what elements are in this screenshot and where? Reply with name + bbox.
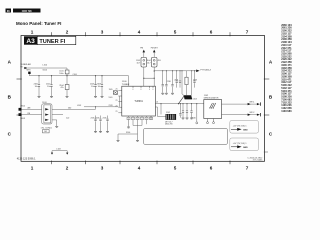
svg-text:2130: 2130	[167, 81, 171, 83]
svg-text:Mono Panel: Tuner FI: Mono Panel: Tuner FI	[16, 21, 61, 26]
svg-text:8: 8	[149, 89, 150, 91]
svg-text:GND: GND	[243, 147, 248, 149]
svg-text:21: 21	[156, 102, 158, 104]
svg-text:8: 8	[133, 89, 134, 91]
svg-text:47u: 47u	[60, 87, 63, 89]
svg-text:4822 290: 4822 290	[165, 124, 173, 126]
svg-text:10n: 10n	[98, 86, 101, 88]
svg-text:455: 455	[158, 60, 161, 62]
svg-text:FM DET: FM DET	[151, 48, 159, 50]
svg-text:100u: 100u	[59, 73, 63, 75]
svg-text:DEMODULATOR: DEMODULATOR	[204, 97, 219, 100]
svg-text:A3: A3	[26, 38, 35, 45]
svg-text:5102: 5102	[166, 112, 170, 114]
svg-text:+5V (TV, DK) 1: +5V (TV, DK) 1	[233, 125, 248, 127]
svg-text:TUNER FI: TUNER FI	[39, 39, 65, 45]
svg-text:TUNER: TUNER	[122, 84, 130, 86]
svg-text:21: 21	[116, 100, 118, 102]
svg-text:5103: 5103	[193, 98, 197, 100]
svg-text:GND: GND	[243, 129, 248, 131]
svg-text:3: 3	[101, 30, 104, 35]
svg-text:8: 8	[141, 89, 142, 91]
svg-text:560: 560	[68, 108, 71, 110]
svg-text:21: 21	[116, 89, 118, 91]
svg-text:10n: 10n	[47, 86, 50, 88]
svg-text:21: 21	[116, 105, 118, 107]
svg-text:2133: 2133	[193, 80, 197, 82]
svg-text:10.7: 10.7	[137, 62, 141, 64]
svg-text:C106: C106	[73, 74, 77, 76]
svg-text:7: 7	[246, 30, 249, 35]
svg-text:2: 2	[66, 166, 69, 171]
svg-text:1 KL CON01: 1 KL CON01	[41, 127, 53, 129]
svg-text:10.7: 10.7	[147, 62, 151, 64]
svg-text:1: 1	[31, 166, 34, 171]
svg-text:CDR 796: CDR 796	[22, 10, 33, 13]
svg-text:10n: 10n	[35, 86, 38, 88]
svg-text:4: 4	[138, 166, 141, 171]
svg-text:L103: L103	[56, 149, 60, 151]
svg-text:21: 21	[116, 111, 118, 113]
svg-text:2136: 2136	[103, 117, 107, 119]
svg-text:7: 7	[246, 166, 249, 171]
svg-text:TU8931: TU8931	[134, 100, 143, 103]
svg-text:5: 5	[174, 30, 177, 35]
svg-text:5101: 5101	[109, 97, 113, 99]
svg-text:2131: 2131	[174, 80, 178, 82]
svg-text:2140: 2140	[192, 118, 196, 120]
svg-text:3100: 3100	[126, 132, 130, 134]
svg-text:1: 1	[31, 30, 34, 35]
svg-text:L102: L102	[77, 105, 81, 107]
svg-text:727 21465: 727 21465	[252, 159, 263, 161]
svg-text:2: 2	[66, 30, 69, 35]
svg-text:1100: 1100	[122, 81, 127, 83]
svg-text:FM: FM	[140, 48, 143, 50]
svg-text:1105: 1105	[109, 89, 113, 91]
svg-text:3: 3	[101, 166, 104, 171]
svg-text:4136 123 5096.1: 4136 123 5096.1	[17, 157, 36, 160]
svg-text:6: 6	[210, 30, 213, 35]
svg-text:1u0: 1u0	[66, 117, 69, 119]
svg-text:6: 6	[210, 166, 213, 171]
svg-text:MP3: MP3	[27, 70, 31, 72]
svg-text:5: 5	[174, 166, 177, 171]
svg-text:2128: 2128	[109, 105, 113, 107]
svg-text:10n: 10n	[91, 86, 94, 88]
svg-text:2136: 2136	[91, 117, 95, 119]
svg-text:+5V (TV, DK) 1: +5V (TV, DK) 1	[233, 143, 248, 145]
svg-text:8: 8	[153, 89, 154, 91]
svg-text:1103 683: 1103 683	[281, 110, 292, 113]
svg-text:PTT6466-X: PTT6466-X	[200, 69, 211, 71]
svg-text:21: 21	[116, 94, 118, 96]
svg-text:2136: 2136	[96, 117, 100, 119]
svg-text:4: 4	[138, 30, 141, 35]
